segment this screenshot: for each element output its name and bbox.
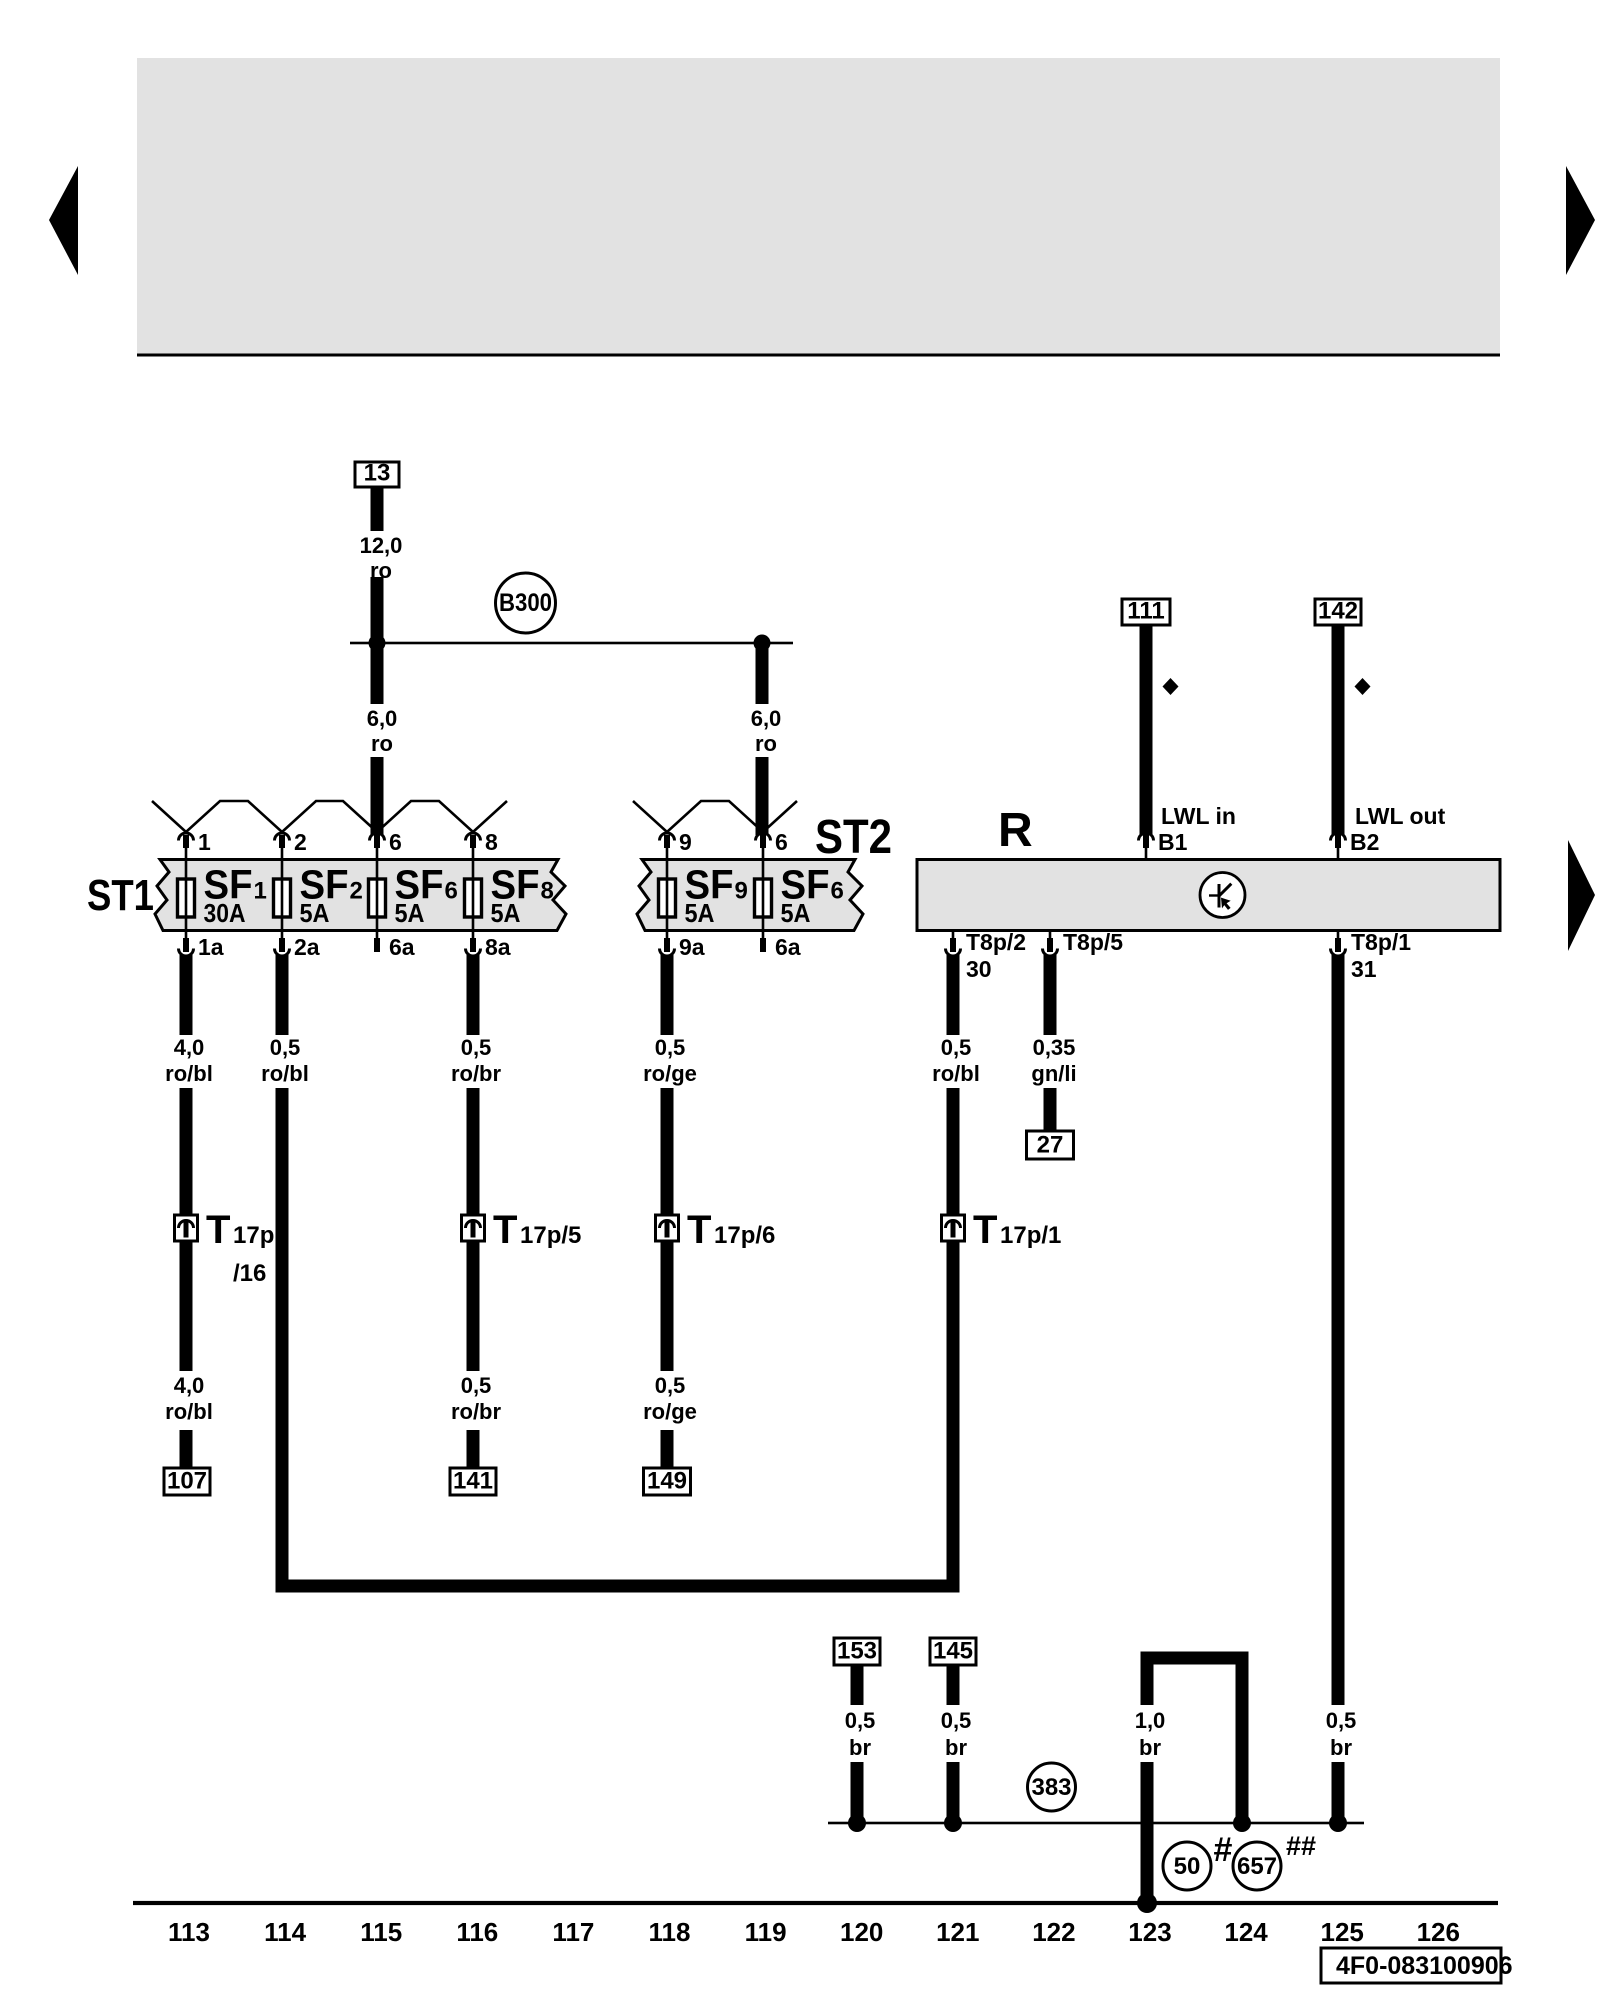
svg-text:T: T <box>687 1208 711 1252</box>
svg-text:8: 8 <box>485 829 498 855</box>
ST2 pin 6 <box>756 829 788 860</box>
optical transceiver symbol inside R <box>1200 873 1245 918</box>
node B300 designation circle <box>496 573 556 633</box>
wire 1,0 br ground loop <box>1141 1652 1249 1904</box>
svg-text:gn/li: gn/li <box>1031 1061 1076 1086</box>
svg-text:123: 123 <box>1128 1917 1171 1947</box>
wire 6,0 ro to ST2 pin 6 <box>756 643 769 835</box>
svg-text:116: 116 <box>456 1917 498 1947</box>
svg-text:121: 121 <box>936 1917 979 1947</box>
control unit R (radio) box <box>917 860 1500 931</box>
label 4,0 ro/bl upper <box>165 1035 213 1086</box>
page nav arrow left <box>49 166 78 275</box>
wire 0,5 ro/br lower <box>467 1241 480 1468</box>
fuse SF6 5A on ST2 <box>755 860 844 941</box>
svg-text:1a: 1a <box>198 934 224 960</box>
junction dot 145 wire <box>944 1814 962 1832</box>
label 6,0 ro right <box>751 706 782 756</box>
svg-text:126: 126 <box>1417 1917 1460 1947</box>
svg-text:0,5: 0,5 <box>1326 1708 1357 1733</box>
optical lead marker diamond at 111 wire <box>1163 678 1179 695</box>
svg-text:17p/1: 17p/1 <box>1000 1222 1061 1249</box>
svg-text:br: br <box>1139 1735 1161 1760</box>
label 0,5 br at 145 <box>941 1708 972 1760</box>
legend header panel <box>137 58 1500 357</box>
svg-text:4F0-083100906: 4F0-083100906 <box>1336 1952 1513 1980</box>
svg-text:0,5: 0,5 <box>941 1708 972 1733</box>
svg-text:2: 2 <box>350 878 363 905</box>
svg-text:T8p/5: T8p/5 <box>1063 929 1123 955</box>
svg-text:##: ## <box>1286 1831 1316 1861</box>
fuse SF6 5A <box>369 860 458 941</box>
svg-text:5A: 5A <box>395 898 425 928</box>
label 4,0 ro/bl lower <box>165 1373 213 1424</box>
ground bus wire 383 <box>828 1822 1364 1825</box>
terminal box 153 <box>834 1638 880 1666</box>
label 0,5 br at T8p/1 <box>1326 1708 1357 1760</box>
terminal box 142 <box>1315 598 1361 626</box>
svg-text:141: 141 <box>453 1468 493 1495</box>
wire 0,5 ro/bl from fuse SF2 pin 2a <box>276 955 289 1586</box>
svg-text:5A: 5A <box>491 898 521 928</box>
svg-text:30: 30 <box>966 956 992 982</box>
svg-text:ro/br: ro/br <box>451 1399 502 1424</box>
svg-text:1,0: 1,0 <box>1135 1708 1166 1733</box>
svg-text:153: 153 <box>837 1638 877 1665</box>
terminal box 141 <box>450 1468 496 1496</box>
svg-text:B2: B2 <box>1350 829 1379 855</box>
terminal box 27 <box>1027 1131 1074 1159</box>
wire 0,5 ro/br from fuse SF8 pin 8a <box>467 955 480 1215</box>
svg-text:5A: 5A <box>685 898 715 928</box>
label ST2 <box>815 811 892 864</box>
svg-text:0,5: 0,5 <box>655 1373 686 1398</box>
svg-text:B300: B300 <box>499 589 552 617</box>
svg-text:8: 8 <box>541 878 554 905</box>
wire 6,0 ro to ST1 pin 6 <box>371 643 384 835</box>
wire 0,5 br from 145 <box>947 1665 960 1823</box>
svg-text:9a: 9a <box>679 934 705 960</box>
harness zigzag above ST2 <box>633 801 797 832</box>
svg-text:6: 6 <box>445 878 458 905</box>
label 0,5 br at 153 <box>845 1708 876 1760</box>
terminal box 145 <box>930 1638 976 1666</box>
svg-text:ro: ro <box>755 731 777 756</box>
svg-text:17p/6: 17p/6 <box>714 1222 775 1249</box>
R pin B1 <box>1139 829 1188 860</box>
ST2 pin 6a stub <box>760 934 801 960</box>
svg-text:ro/br: ro/br <box>451 1061 502 1086</box>
svg-text:114: 114 <box>264 1917 306 1947</box>
R pin B2 <box>1331 829 1380 860</box>
svg-text:ST2: ST2 <box>815 811 892 864</box>
ST1 pin 8 <box>466 829 499 860</box>
svg-text:122: 122 <box>1032 1917 1075 1947</box>
svg-text:6,0: 6,0 <box>751 706 782 731</box>
label 1,0 br <box>1135 1708 1166 1760</box>
wire 0,5 ro/bl from R pin T8p/2 <box>947 955 960 1215</box>
svg-text:142: 142 <box>1318 598 1358 625</box>
svg-text:1: 1 <box>254 878 267 905</box>
connector T17p/16 <box>175 1208 275 1287</box>
fuse panel ST2 <box>637 860 863 931</box>
svg-text:4,0: 4,0 <box>174 1035 205 1060</box>
svg-text:6a: 6a <box>775 934 801 960</box>
label LWL in <box>1161 803 1236 829</box>
svg-text:30A: 30A <box>204 898 246 928</box>
svg-text:6,0: 6,0 <box>367 706 398 731</box>
current track numbers 113-126 <box>168 1917 1460 1947</box>
svg-text:125: 125 <box>1321 1917 1364 1947</box>
svg-text:5A: 5A <box>300 898 330 928</box>
terminal box 107 <box>164 1468 210 1496</box>
terminal box 111 <box>1122 598 1170 626</box>
svg-text:0,35: 0,35 <box>1033 1035 1076 1060</box>
svg-text:0,5: 0,5 <box>941 1035 972 1060</box>
svg-text:0,5: 0,5 <box>270 1035 301 1060</box>
junction dot loop leg <box>1233 1814 1251 1832</box>
page nav arrow right middle <box>1568 840 1595 951</box>
svg-text:145: 145 <box>933 1638 973 1665</box>
svg-text:6a: 6a <box>389 934 415 960</box>
label 0,5 ro/ge lower <box>643 1373 697 1424</box>
ground node circle 657 with ## <box>1233 1831 1316 1890</box>
ST1 pin 2 <box>275 829 307 860</box>
svg-text:LWL out: LWL out <box>1355 803 1446 829</box>
optical lead marker diamond at 142 wire <box>1355 678 1371 695</box>
label 0,5 ro/bl at SF2 <box>261 1035 309 1086</box>
wire 0,5 ro/ge from fuse SF9 pin 9a <box>661 955 674 1215</box>
label 0,35 gn/li <box>1031 1035 1076 1086</box>
wire run to T17p/1 (horizontal) <box>276 1580 960 1593</box>
svg-text:124: 124 <box>1224 1917 1268 1947</box>
svg-text:ro/bl: ro/bl <box>932 1061 980 1086</box>
svg-text:50: 50 <box>1174 1853 1201 1880</box>
label 0,5 ro/bl at T8p/2 <box>932 1035 980 1086</box>
svg-text:1: 1 <box>198 829 211 855</box>
connector T17p/1 <box>942 1208 1062 1252</box>
wire 0,5 br from R pin T8p/1 <box>1332 955 1345 1823</box>
ST1 pin 1 <box>179 829 212 860</box>
svg-text:657: 657 <box>1237 1853 1277 1880</box>
node B300 bus wire <box>350 642 793 645</box>
label 12,0 ro <box>360 533 403 583</box>
svg-text:LWL in: LWL in <box>1161 803 1236 829</box>
svg-text:107: 107 <box>167 1468 207 1495</box>
svg-text:17p/5: 17p/5 <box>520 1222 581 1249</box>
ST2 pin 9 <box>660 829 692 860</box>
svg-text:0,5: 0,5 <box>461 1373 492 1398</box>
svg-text:111: 111 <box>1127 598 1164 625</box>
wire 0,5 ro/ge lower <box>661 1241 674 1468</box>
svg-text:0,5: 0,5 <box>845 1708 876 1733</box>
svg-text:/16: /16 <box>233 1260 266 1287</box>
wire 12,0 ro from terminal 13 <box>371 487 384 643</box>
bottom rail line <box>133 1901 1498 1905</box>
junction dot on main ground line <box>1137 1893 1157 1913</box>
svg-text:ST1: ST1 <box>87 871 154 920</box>
label ST1 <box>87 871 154 920</box>
svg-text:ro/ge: ro/ge <box>643 1399 697 1424</box>
svg-text:149: 149 <box>647 1468 687 1495</box>
label LWL out <box>1355 803 1446 829</box>
ST1 pin 1a <box>179 934 224 960</box>
svg-text:T8p/1: T8p/1 <box>1351 929 1411 955</box>
svg-text:0,5: 0,5 <box>461 1035 492 1060</box>
svg-text:2a: 2a <box>294 934 320 960</box>
wire LWL from 111 to R pin B1 <box>1140 625 1153 835</box>
svg-text:0,5: 0,5 <box>655 1035 686 1060</box>
R pin T8p/5 <box>1043 929 1124 956</box>
svg-text:br: br <box>849 1735 871 1760</box>
fuse SF1 30A <box>178 860 267 941</box>
R pin T8p/1 terminal 31 <box>1331 929 1412 982</box>
ST1 pin 6a stub <box>374 934 415 960</box>
fuse SF9 5A <box>659 860 748 941</box>
svg-text:ro: ro <box>371 731 393 756</box>
fuse SF8 5A <box>465 860 554 941</box>
svg-text:T: T <box>973 1208 997 1252</box>
wire 0,35 gn/li from R pin T8p/5 <box>1044 955 1057 1131</box>
svg-text:119: 119 <box>745 1917 787 1947</box>
label 0,5 ro/br upper <box>451 1035 502 1086</box>
svg-text:9: 9 <box>679 829 692 855</box>
svg-text:T8p/2: T8p/2 <box>966 929 1026 955</box>
terminal box 13 <box>355 460 399 488</box>
svg-text:br: br <box>1330 1735 1352 1760</box>
svg-text:383: 383 <box>1031 1774 1071 1801</box>
svg-text:117: 117 <box>552 1917 594 1947</box>
ST1 pin 2a <box>275 934 320 960</box>
ST1 pin 6 <box>370 829 402 860</box>
wire 4,0 ro/bl lower <box>180 1241 193 1468</box>
svg-text:2: 2 <box>294 829 307 855</box>
page nav arrow right top <box>1566 166 1595 275</box>
svg-text:113: 113 <box>168 1917 210 1947</box>
svg-text:R: R <box>998 804 1033 857</box>
svg-text:T: T <box>493 1208 517 1252</box>
wire 0,5 br from 153 <box>851 1665 864 1823</box>
svg-text:9: 9 <box>735 878 748 905</box>
fuse SF2 5A <box>274 860 363 941</box>
ST1 pin 8a <box>466 934 511 960</box>
label 6,0 ro left <box>367 706 398 756</box>
svg-text:ro/bl: ro/bl <box>165 1399 213 1424</box>
svg-text:13: 13 <box>364 460 391 487</box>
wire 4,0 ro/bl from fuse SF1 pin 1a <box>180 955 193 1215</box>
svg-text:#: # <box>1214 1831 1233 1869</box>
svg-text:ro/bl: ro/bl <box>261 1061 309 1086</box>
junction dot left on B300 <box>369 635 386 652</box>
label 0,5 ro/ge upper <box>643 1035 697 1086</box>
wire LWL from 142 to R pin B2 <box>1332 625 1345 835</box>
svg-text:6: 6 <box>831 878 844 905</box>
wire below T17p/1 to corner <box>947 1241 960 1593</box>
junction dot 153 wire <box>848 1814 866 1832</box>
svg-text:31: 31 <box>1351 956 1377 982</box>
junction dot right on B300 <box>754 635 771 652</box>
harness zigzag above ST1 <box>152 801 507 832</box>
svg-text:27: 27 <box>1037 1132 1064 1159</box>
svg-text:115: 115 <box>360 1917 402 1947</box>
ground node circle 50 with # <box>1163 1831 1233 1890</box>
fuse panel ST1 <box>155 860 566 931</box>
svg-text:5A: 5A <box>781 898 811 928</box>
svg-text:ro/ge: ro/ge <box>643 1061 697 1086</box>
diagram part number box 4F0-083100906 <box>1321 1948 1513 1983</box>
svg-text:6: 6 <box>389 829 402 855</box>
svg-text:ro: ro <box>370 558 392 583</box>
svg-text:B1: B1 <box>1158 829 1188 855</box>
svg-text:ro/bl: ro/bl <box>165 1061 213 1086</box>
svg-text:12,0: 12,0 <box>360 533 403 558</box>
ST2 pin 9a <box>660 934 705 960</box>
junction dot T8p/1 wire <box>1329 1814 1347 1832</box>
svg-text:br: br <box>945 1735 967 1760</box>
terminal box 149 <box>644 1468 691 1496</box>
connector T17p/6 <box>656 1208 776 1252</box>
svg-text:118: 118 <box>649 1917 691 1947</box>
label R <box>998 804 1033 857</box>
R pin T8p/2 terminal 30 <box>946 929 1027 982</box>
svg-text:17p: 17p <box>233 1222 274 1249</box>
label 0,5 ro/br lower <box>451 1373 502 1424</box>
svg-text:120: 120 <box>840 1917 883 1947</box>
connector T17p/5 <box>462 1208 582 1252</box>
svg-text:8a: 8a <box>485 934 511 960</box>
svg-text:4,0: 4,0 <box>174 1373 205 1398</box>
svg-text:6: 6 <box>775 829 788 855</box>
svg-text:T: T <box>206 1208 230 1252</box>
ground node circle 383 <box>1028 1763 1076 1811</box>
